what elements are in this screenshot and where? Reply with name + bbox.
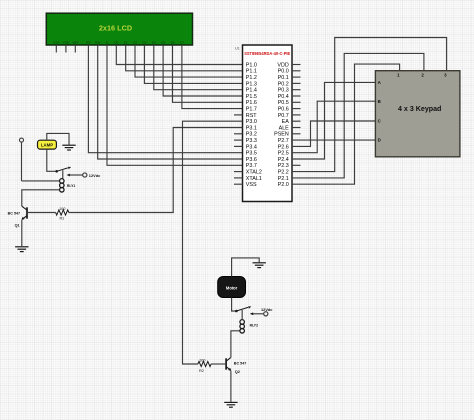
svg-text:P2.0: P2.0	[278, 182, 289, 188]
node 12Vdc terminal (lamp relay)	[83, 173, 101, 178]
svg-text:Motor: Motor	[226, 285, 238, 290]
wire U1 P2.6 to keypad C	[292, 121, 375, 146]
ground (motor)	[253, 263, 266, 268]
motor M1	[218, 277, 246, 298]
svg-text:P1.2: P1.2	[246, 75, 257, 81]
svg-text:U1: U1	[235, 46, 240, 50]
svg-text:RLY2: RLY2	[250, 324, 258, 328]
svg-text:R2: R2	[199, 369, 204, 373]
ground (Q2 emitter)	[224, 402, 237, 407]
svg-text:D6: D6	[171, 40, 175, 44]
svg-text:P3.5: P3.5	[246, 151, 257, 157]
svg-text:D4: D4	[152, 40, 156, 44]
svg-text:E: E	[106, 40, 108, 44]
node power terminal (top-left)	[20, 138, 24, 142]
wire Q1 emitter to ground	[21, 220, 23, 246]
U1 pin P3.2 stub	[234, 133, 243, 135]
svg-text:RLY1: RLY1	[67, 184, 75, 188]
U1 pin P0.0 stub	[292, 70, 301, 72]
svg-text:P2.3: P2.3	[278, 163, 289, 169]
svg-text:P0.5: P0.5	[278, 100, 289, 106]
wire LCD D3 to U1 P1.3	[144, 45, 242, 83]
svg-text:D7: D7	[180, 40, 184, 44]
svg-text:P2.1: P2.1	[278, 176, 289, 182]
svg-text:P0.6: P0.6	[278, 107, 289, 113]
svg-text:VDD: VDD	[63, 40, 70, 44]
svg-text:VDD: VDD	[277, 62, 288, 68]
transistor Q1 BC547 (mirrored NPN)	[8, 206, 27, 227]
svg-text:D1: D1	[124, 40, 128, 44]
node 12Vdc terminal (motor relay)	[261, 307, 273, 316]
wire U1 P3.0 to R2	[183, 121, 243, 364]
svg-text:P2.5: P2.5	[278, 151, 289, 157]
U1 pin P3.4 stub	[234, 145, 243, 147]
wire LCD D2 to U1 P1.2	[135, 45, 243, 77]
svg-text:P1.1: P1.1	[246, 69, 257, 75]
U1 pin P0.6 stub	[292, 108, 301, 110]
svg-text:P3.0: P3.0	[246, 119, 257, 125]
ground (Q1 emitter)	[15, 247, 28, 252]
U1 pin EA stub	[292, 120, 301, 122]
wire Q2 emitter to ground	[230, 371, 232, 402]
wire RL2 contact to 12Vdc terminal	[250, 312, 264, 315]
wire U1 P2.7 to keypad D	[292, 139, 375, 141]
svg-text:Q1: Q1	[15, 223, 20, 227]
wire LCD E to U1 P3.7	[107, 45, 243, 165]
wire LCD D0 to U1 P1.0	[116, 45, 242, 65]
relay RL2 contact (switch)	[235, 306, 251, 312]
svg-text:D5: D5	[161, 40, 165, 44]
U1 pin P2.3 stub	[292, 164, 301, 166]
wire RL1 coil bottom to Q1 collector	[22, 190, 60, 206]
svg-text:P0.0: P0.0	[278, 69, 289, 75]
LCD pin VDD stub	[65, 45, 67, 53]
resistor R1 100	[56, 207, 69, 220]
keypad KP1 4x3 keypad	[375, 71, 460, 157]
svg-text:P1.4: P1.4	[246, 88, 257, 94]
U1 pin P0.5 stub	[292, 101, 301, 103]
svg-text:D0: D0	[114, 40, 118, 44]
svg-text:P2.6: P2.6	[278, 144, 289, 150]
resistor R2 100	[198, 359, 211, 373]
wire terminal to RL1 coil top	[21, 142, 23, 181]
wire LCD D4 to U1 P1.4	[154, 45, 243, 90]
wire lamp bottom to RL1 contact	[47, 149, 56, 171]
U1 pin P0.3 stub	[292, 89, 301, 91]
wire LCD D7 to U1 P1.7	[182, 45, 243, 109]
wire RL2 coil top to contact	[241, 310, 243, 320]
svg-text:12Vdc: 12Vdc	[261, 307, 273, 312]
svg-text:R1: R1	[59, 217, 64, 221]
svg-text:P0.1: P0.1	[278, 75, 289, 81]
U1 pin P0.4 stub	[292, 95, 301, 97]
ground (lamp)	[62, 145, 75, 150]
svg-text:100: 100	[59, 207, 65, 211]
relay RL1 contact (switch)	[55, 167, 71, 179]
svg-text:12Vdc: 12Vdc	[89, 173, 101, 178]
wire motor top to ground	[232, 258, 260, 277]
svg-text:P1.0: P1.0	[246, 62, 257, 68]
svg-text:P1.3: P1.3	[246, 81, 257, 87]
svg-text:LAMP: LAMP	[41, 143, 53, 148]
wire motor bottom to RL2 contact	[232, 298, 236, 312]
lamp L1	[38, 140, 57, 149]
svg-text:P2.7: P2.7	[278, 138, 289, 144]
svg-text:P0.7: P0.7	[278, 113, 289, 119]
LCD1 2x16 LCD display module	[46, 13, 192, 45]
wire LCD D6 to U1 P1.6	[173, 45, 243, 102]
svg-text:Q2: Q2	[235, 370, 240, 374]
svg-text:RST: RST	[246, 113, 257, 119]
svg-text:P3.2: P3.2	[246, 132, 257, 138]
svg-text:2x16 LCD: 2x16 LCD	[99, 24, 132, 33]
svg-text:RS: RS	[86, 40, 90, 44]
U1 pin VDD stub	[292, 64, 301, 66]
svg-text:P1.7: P1.7	[246, 107, 257, 113]
wire R1 to Q1 base	[27, 212, 56, 214]
wire U1 P2.5 to keypad B	[292, 101, 375, 153]
U1 pin PSEN stub	[292, 133, 301, 135]
wire U1 P3.1 to R1	[69, 128, 243, 213]
LCD pin VSS stub	[55, 45, 57, 53]
LCD pin VEE stub	[74, 45, 76, 53]
U1 pin P0.1 stub	[292, 76, 301, 78]
svg-text:D3: D3	[143, 40, 147, 44]
relay RL2 coil RLY2	[240, 320, 258, 333]
svg-text:XTAL2: XTAL2	[246, 170, 262, 176]
svg-text:P0.4: P0.4	[278, 94, 289, 100]
U1 pin XTAL2 stub	[234, 171, 243, 173]
svg-text:4 x 3 Keypad: 4 x 3 Keypad	[398, 105, 441, 113]
svg-text:P2.4: P2.4	[278, 157, 289, 163]
svg-text:RW: RW	[95, 40, 100, 44]
svg-text:XTAL1: XTAL1	[246, 176, 262, 182]
wire lamp top to ground	[47, 133, 69, 144]
svg-text:B: B	[378, 99, 381, 104]
relay RL1 coil RLY1	[60, 179, 76, 192]
wire LCD RS to U1 P3.5	[88, 45, 242, 153]
op-amp U1 microcontroller SST89E54RDA-40-C-PIE body	[235, 45, 292, 202]
wire U1 P2.2 to keypad col 3	[292, 38, 447, 172]
svg-text:PSEN: PSEN	[274, 132, 289, 138]
svg-text:P3.6: P3.6	[246, 157, 257, 163]
wire U1 P2.1 to keypad col 2	[292, 53, 424, 177]
wire LCD RW to U1 P3.6	[98, 45, 243, 159]
U1 pin XTAL1 stub	[234, 177, 243, 179]
U1 pin ALE stub	[292, 127, 301, 129]
wire R2 to Q2 base	[211, 363, 225, 365]
svg-text:VSS: VSS	[53, 40, 59, 44]
U1 pin VSS stub	[234, 183, 243, 185]
svg-text:D: D	[378, 138, 381, 143]
svg-text:BC 547: BC 547	[8, 212, 21, 216]
svg-text:P3.1: P3.1	[246, 125, 257, 131]
svg-text:P1.5: P1.5	[246, 94, 257, 100]
U1 pin RST stub	[234, 114, 243, 116]
wire U1 P2.4 to keypad A	[292, 82, 375, 159]
svg-text:P3.4: P3.4	[246, 144, 257, 150]
svg-text:VSS: VSS	[246, 182, 257, 188]
wire U1 P2.0 to keypad col 1	[292, 64, 400, 184]
wire to RL1 coil top pin	[22, 180, 60, 182]
svg-text:D2: D2	[133, 40, 137, 44]
svg-text:P3.7: P3.7	[246, 163, 257, 169]
svg-text:ALE: ALE	[279, 125, 290, 131]
svg-text:100: 100	[199, 359, 205, 363]
U1 pin P0.2 stub	[292, 82, 301, 84]
U1 pin P3.3 stub	[234, 139, 243, 141]
wire Q2 collector to RL2 coil bottom	[231, 331, 240, 358]
svg-text:VEE: VEE	[72, 40, 78, 44]
svg-text:P3.3: P3.3	[246, 138, 257, 144]
U1 pin P0.7 stub	[292, 114, 301, 116]
svg-text:P0.2: P0.2	[278, 81, 289, 87]
svg-text:P2.2: P2.2	[278, 170, 289, 176]
wire RL1 contact to 12Vdc terminal	[67, 174, 83, 177]
svg-text:EA: EA	[282, 119, 290, 125]
wire LCD D1 to U1 P1.1	[126, 45, 243, 71]
transistor Q2 BC547	[226, 357, 246, 373]
svg-text:SST89E54RDA-40-C-PIE: SST89E54RDA-40-C-PIE	[244, 51, 290, 56]
svg-text:BC 547: BC 547	[234, 361, 247, 365]
svg-text:P0.3: P0.3	[278, 88, 289, 94]
svg-text:P1.6: P1.6	[246, 100, 257, 106]
wire LCD D5 to U1 P1.5	[163, 45, 242, 96]
